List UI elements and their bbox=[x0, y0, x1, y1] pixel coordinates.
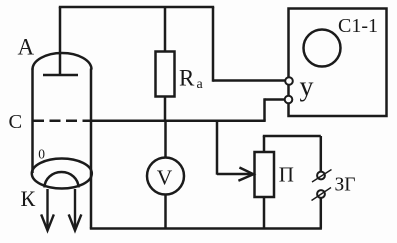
resistor Ra body bbox=[156, 52, 175, 97]
heater dome bbox=[45, 172, 79, 188]
wiper arrow into potentiometer bbox=[217, 168, 254, 180]
terminal ZG upper bbox=[312, 170, 332, 183]
wire anode lead bbox=[59, 7, 62, 74]
grid C dashed electrode bbox=[33, 119, 91, 122]
svg-text:V: V bbox=[157, 166, 173, 190]
wire grid row bbox=[91, 119, 266, 122]
svg-text:К: К bbox=[21, 186, 36, 211]
wire resistor Ra top lead bbox=[164, 7, 167, 52]
wire voltmeter top lead bbox=[164, 121, 167, 158]
wire potentiometer top lead bbox=[263, 136, 266, 152]
resistor Ra value label bbox=[179, 66, 204, 93]
wire bottom rail bbox=[90, 227, 322, 230]
svg-text:a: a bbox=[197, 77, 204, 92]
wire resistor Ra bottom lead bbox=[164, 97, 167, 121]
wire top rail bbox=[59, 6, 214, 9]
terminal ZG lower bbox=[312, 188, 332, 201]
svg-text:0: 0 bbox=[38, 146, 45, 161]
svg-text:А: А bbox=[18, 35, 35, 60]
cathode assembly ellipse bbox=[32, 159, 92, 189]
wire lower Y terminal drop to grid row bbox=[263, 98, 266, 120]
oscilloscope C1-1 box bbox=[289, 9, 387, 117]
wire potentiometer wiper drop bbox=[216, 121, 219, 175]
svg-text:С: С bbox=[9, 111, 23, 133]
wire drop to ZG upper terminal bbox=[320, 136, 323, 172]
cathode lead arrow K right bbox=[69, 189, 81, 231]
voltmeter V body bbox=[147, 158, 184, 195]
tube envelope dome bbox=[33, 53, 92, 69]
wire ZG lower terminal down bbox=[320, 198, 323, 229]
wire to upper Y terminal bbox=[213, 79, 285, 82]
tube right wall bbox=[90, 69, 93, 229]
wire lower Y terminal horizontal bbox=[265, 98, 285, 101]
tube left wall bbox=[31, 69, 34, 174]
svg-text:у: у bbox=[300, 72, 314, 103]
wire P top to ZG terminal bbox=[263, 135, 321, 138]
svg-text:ЗГ: ЗГ bbox=[335, 175, 356, 196]
potentiometer P body bbox=[255, 152, 275, 197]
terminal Y lower bbox=[285, 96, 293, 104]
wire potentiometer bottom lead bbox=[263, 197, 266, 229]
wire voltmeter bottom lead bbox=[164, 195, 167, 229]
oscilloscope CRT screen bbox=[304, 30, 341, 67]
anode plate A bbox=[43, 74, 78, 77]
wire right drop from top rail bbox=[212, 7, 215, 82]
svg-text:П: П bbox=[279, 163, 294, 187]
terminal Y upper bbox=[285, 77, 293, 85]
cathode lead arrow K left bbox=[42, 189, 54, 231]
svg-text:R: R bbox=[179, 66, 195, 91]
svg-text:С1-1: С1-1 bbox=[338, 15, 378, 37]
